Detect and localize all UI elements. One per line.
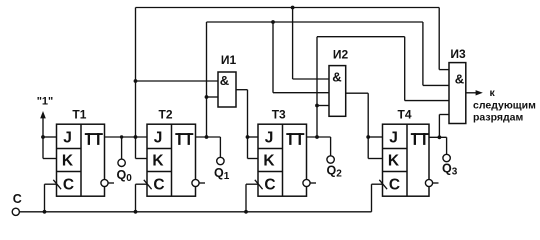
wire: И1 input 2 from Q1 vertical xyxy=(205,95,218,99)
svg-text:&: & xyxy=(220,73,229,88)
svg-text:C: C xyxy=(13,192,22,206)
flip-flop T2 xyxy=(147,124,196,196)
svg-text:K: K xyxy=(152,153,164,170)
wire: И3 output arrow "к следующим разрядам" xyxy=(466,90,483,95)
svg-text:J: J xyxy=(265,129,274,146)
svg-text:И2: И2 xyxy=(333,48,349,62)
inverse output pin of T3 xyxy=(303,179,316,186)
svg-text:следующим: следующим xyxy=(473,100,536,112)
node Q0 terminal xyxy=(118,135,125,166)
svg-text:к: к xyxy=(490,87,496,99)
AND gate U3 (И3) xyxy=(449,63,466,124)
node C input terminal xyxy=(12,208,19,215)
wire: logic "1" feed with arrow to T1 J and K xyxy=(40,111,56,159)
wire: Q1 rail (second) from Q1 vertical to И3 xyxy=(207,22,450,137)
flip-flop T4 xyxy=(383,124,430,196)
wire: И2 input 3 from Q2 vertical xyxy=(315,104,329,108)
svg-text:T1: T1 xyxy=(72,107,86,121)
dynamic C input slash of T3 xyxy=(255,180,263,189)
inverse output pin of T2 xyxy=(192,179,205,186)
inverse output pin of T1 xyxy=(101,179,114,186)
inverse output pin of T4 xyxy=(425,179,438,186)
wire: Q3 to И3 input 4 xyxy=(439,115,449,138)
wire: C clock rail along bottom xyxy=(19,211,371,213)
flip-flop T1 xyxy=(57,124,105,196)
svg-text:&: & xyxy=(332,70,341,85)
svg-text:C: C xyxy=(389,177,400,194)
wire: Q2 wire (third) from T3 output up and over to И3 xyxy=(317,37,449,137)
node: junction Q0 rail to И2 input 1 xyxy=(291,6,329,79)
svg-text:&: & xyxy=(455,72,464,87)
dynamic C input slash of T1 xyxy=(53,180,61,189)
svg-text:C: C xyxy=(63,177,74,194)
wire: T1 Q output to T2 J input xyxy=(105,135,148,139)
wire: И1 output to T3 J and K xyxy=(236,90,258,159)
svg-text:K: K xyxy=(263,153,275,170)
svg-text:"1": "1" xyxy=(37,96,54,108)
svg-text:T3: T3 xyxy=(272,107,286,121)
wire: T4 Q output to Q3 terminal xyxy=(429,135,450,161)
svg-text:J: J xyxy=(63,129,72,146)
wire: Q0 rail (top) from T1 output vertical to И3 xyxy=(136,8,450,159)
wire: И1 input 1 from Q0 vertical xyxy=(134,79,218,83)
wire: C to T1 clock input xyxy=(43,184,57,214)
svg-text:T4: T4 xyxy=(397,107,411,121)
wire: C to T3 clock input xyxy=(244,184,258,214)
AND gate U1 (И1) xyxy=(218,72,236,107)
svg-text:J: J xyxy=(154,129,163,146)
wire: C to T2 clock input xyxy=(134,184,147,214)
wire: T2 K feed from Q0 vertical xyxy=(136,158,148,160)
wire: C to T4 clock input xyxy=(372,184,383,212)
svg-text:C: C xyxy=(153,177,164,194)
svg-text:И1: И1 xyxy=(221,53,237,67)
label к следующим разрядам xyxy=(473,87,536,124)
flip-flop T3 xyxy=(258,124,307,196)
svg-text:T2: T2 xyxy=(158,107,172,121)
svg-text:И3: И3 xyxy=(450,47,466,61)
svg-text:C: C xyxy=(264,177,275,194)
svg-text:K: K xyxy=(62,153,74,170)
svg-text:разрядам: разрядам xyxy=(473,112,524,124)
wire: T2 Q output to Q1 terminal xyxy=(196,135,225,165)
svg-text:J: J xyxy=(389,129,398,146)
dynamic C input slash of T2 xyxy=(144,180,152,189)
wire: И2 output to T4 J and K xyxy=(346,93,383,158)
AND gate U2 (И2) xyxy=(329,66,346,117)
wire: T3 Q output to Q2 terminal xyxy=(307,135,335,163)
dynamic C input slash of T4 xyxy=(379,180,387,189)
svg-text:K: K xyxy=(388,153,400,170)
node: junction Q1 rail to И2 input 2 xyxy=(271,20,329,93)
